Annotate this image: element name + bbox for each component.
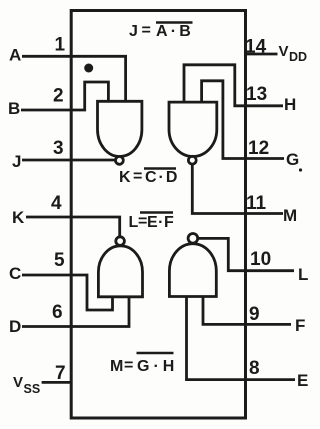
svg-text:C: C	[9, 264, 21, 283]
wire pin11 M from gate U1B output	[192, 164, 283, 213]
overline of C·D	[144, 167, 176, 169]
overline of G·H	[137, 352, 174, 354]
svg-text:9: 9	[249, 304, 260, 325]
svg-text:G·H: G·H	[137, 358, 178, 375]
svg-text:E·F: E·F	[147, 214, 174, 231]
svg-text:C·D: C·D	[145, 169, 179, 186]
wire pin5 C to gate U1C input	[22, 275, 113, 310]
svg-text:DD: DD	[289, 50, 307, 64]
wire pin6 D to gate U1C input	[22, 297, 129, 327]
pin 1 index dot	[84, 64, 93, 73]
svg-text:6: 6	[52, 302, 63, 323]
NAND gate U1A body	[98, 101, 142, 156]
svg-text:1: 1	[55, 35, 66, 56]
svg-text:J: J	[129, 23, 138, 40]
svg-text:M: M	[283, 206, 297, 225]
overline of E·F	[140, 211, 173, 213]
svg-text:12: 12	[248, 138, 269, 159]
svg-text:=: =	[138, 213, 147, 230]
svg-text:M: M	[110, 358, 123, 375]
IC package outline	[71, 11, 245, 419]
wire pin3 J from gate U1A output	[22, 159, 115, 162]
svg-text:5: 5	[54, 250, 65, 271]
overline of A·B	[156, 21, 193, 23]
svg-text:K: K	[12, 208, 25, 227]
svg-text:L: L	[129, 214, 139, 231]
wire pin13 H to gate U1B input	[184, 65, 283, 106]
svg-text:L: L	[298, 265, 308, 284]
svg-text:B: B	[8, 99, 20, 118]
svg-text:E: E	[297, 371, 308, 390]
NAND gate U1B body	[169, 102, 217, 156]
NAND gate U1C output bubble	[116, 237, 125, 246]
wire pin7 VSS	[42, 381, 73, 384]
NAND gate U1D body	[169, 244, 216, 297]
svg-text:A·B: A·B	[156, 23, 194, 40]
svg-text:SS: SS	[24, 382, 41, 396]
dot speck after G	[299, 168, 302, 171]
svg-text:F: F	[295, 316, 305, 335]
wire pin1 A to gate U1A input	[22, 56, 126, 101]
svg-text:G: G	[286, 150, 299, 169]
svg-text:H: H	[284, 95, 296, 114]
wire pin10 L from gate U1D output	[198, 238, 294, 270]
svg-text:=: =	[124, 357, 133, 374]
svg-text:3: 3	[53, 138, 64, 159]
svg-text:4: 4	[51, 193, 62, 214]
svg-text:14: 14	[245, 37, 267, 58]
svg-text:A: A	[9, 46, 21, 65]
NAND gate U1C body	[98, 246, 142, 297]
svg-text:D: D	[9, 317, 21, 336]
NAND gate U1D output bubble	[188, 234, 198, 244]
svg-text:8: 8	[249, 358, 260, 379]
svg-text:K: K	[119, 169, 131, 186]
svg-text:13: 13	[246, 84, 267, 105]
wire pin2 B to gate U1A input	[21, 82, 108, 110]
svg-text:J: J	[12, 152, 21, 171]
svg-text:V: V	[13, 374, 23, 391]
wire pin8 E to gate U1D input	[187, 297, 296, 380]
svg-text:V: V	[279, 43, 289, 60]
svg-text:2: 2	[53, 86, 64, 107]
NAND gate U1B output bubble	[188, 156, 196, 164]
wire pin14 VDD	[245, 53, 278, 56]
NAND gate U1A output bubble	[116, 157, 124, 165]
svg-text:=: =	[142, 22, 151, 39]
svg-text:7: 7	[55, 363, 66, 384]
wire pin12 G to gate U1B input	[202, 81, 284, 159]
wire pin4 K from gate U1C output	[26, 217, 120, 237]
svg-text:10: 10	[250, 249, 271, 270]
wire pin9 F to gate U1D input	[203, 297, 291, 325]
svg-text:11: 11	[246, 193, 267, 214]
svg-text:=: =	[133, 168, 142, 185]
